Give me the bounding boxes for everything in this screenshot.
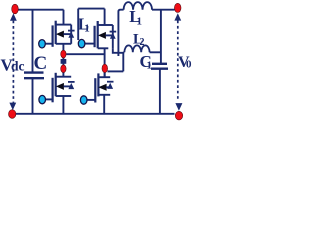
terminal: output positive (red dot, top-right) [174, 3, 181, 12]
wire: input capacitor top lead [32, 10, 34, 72]
transistor Q1 (top-left MOSFET with body diode) [39, 21, 75, 48]
svg-text:1: 1 [137, 16, 143, 28]
transistor Q2 (top-right MOSFET with body diode) [78, 21, 116, 48]
wire: bridge midpoint link (leg1 to leg2) [66, 53, 104, 55]
wire: L1 to output terminal [152, 9, 175, 11]
wire: input capacitor bottom lead [32, 79, 34, 114]
transistor Q3 (bottom-left MOSFET with body diode) [39, 73, 75, 104]
svg-text:1: 1 [147, 60, 153, 72]
node N3 (right leg midpoint, red dot) [102, 64, 108, 72]
svg-text:dc: dc [11, 59, 25, 74]
wire: Q3 source lead to bottom rail [62, 96, 64, 114]
wire: Q2 diode anode foot to L1 lead [113, 48, 124, 53]
svg-text:2: 2 [140, 37, 145, 48]
node N2 (drain node of Q3, red dot) [61, 65, 66, 73]
transistor Q4 (bottom-right MOSFET with body diode) [80, 72, 113, 105]
label L1 (top filter inductor) [129, 7, 142, 28]
svg-text:0: 0 [186, 59, 192, 71]
label C1 (output capacitor) [140, 52, 153, 72]
inductor L1 coil [124, 2, 152, 10]
wire: L1 left lead vertical [118, 10, 123, 56]
capacitor C1 plates [151, 64, 168, 69]
wire: L2 right lead to output node [150, 51, 161, 53]
wire: drain drop of Q2 [104, 9, 106, 26]
node N1 (left leg midpoint, red dot) [61, 50, 66, 58]
Vo measurement arrow (dashed, double-headed) [174, 13, 182, 110]
svg-text:1: 1 [84, 23, 90, 35]
wire: top-left DC rail [18, 9, 64, 11]
wire: C1 bottom lead to bottom rail [159, 69, 161, 114]
label Vdc [1, 56, 25, 75]
wire: node N3 to L2 left lead [108, 70, 124, 72]
wire: L2 left lead vertical [123, 52, 124, 71]
wire: vertical from rail corner down to Q2 gate node [77, 9, 79, 40]
wire: Q4 source lead to bottom rail [103, 95, 105, 114]
wire: Q2 source lead down to node N3 [104, 48, 106, 77]
label L2 (second filter inductor) [133, 31, 145, 48]
wire: left leg midpoint vertical [62, 44, 64, 77]
label Vo (output voltage) [178, 54, 192, 71]
svg-text:C: C [34, 53, 48, 74]
terminal: DC input positive (red dot, top-left) [12, 4, 19, 14]
wire: output node vertical to C1 [160, 10, 162, 63]
junction square between N1 and N2 [61, 59, 67, 64]
capacitor C plates [24, 73, 44, 79]
Vdc measurement arrow (dashed, double-headed) [9, 13, 16, 110]
wire: drain drop of Q1 from top rail [63, 10, 65, 25]
wire: upper-right DC rail segment [78, 8, 104, 10]
wire: bottom rail [15, 113, 175, 115]
label L1 (inside bridge) [78, 15, 90, 35]
terminal: DC input negative (red dot, bottom-left) [9, 110, 16, 119]
inductor L2 coil [124, 45, 149, 52]
terminal: output negative (red dot, bottom-right) [175, 111, 182, 120]
